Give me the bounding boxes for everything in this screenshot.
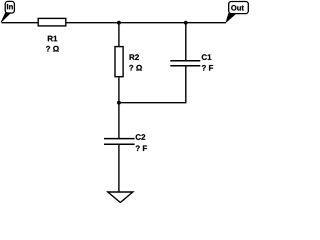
resistor R1	[38, 18, 66, 26]
wire: C1 to bottom rail	[185, 66, 187, 103]
wire: node B down to C1	[185, 23, 187, 61]
capacitor C1 top plate	[170, 60, 200, 62]
resistor R2	[115, 47, 123, 77]
junction node A	[117, 21, 121, 25]
C1 designator label	[202, 54, 212, 60]
wire: C2 to ground	[118, 145, 120, 192]
wire: node A down to R2	[118, 23, 120, 47]
C2 value label ? F	[136, 145, 147, 151]
wire: R1 to node A	[67, 22, 119, 24]
capacitor C2 bottom plate	[104, 143, 135, 145]
capacitor C2 top plate	[104, 138, 135, 140]
wire: In to R1	[2, 22, 39, 24]
R1 value label ? ohm	[46, 46, 59, 52]
wire: node A to node B	[119, 22, 186, 24]
C2 designator label	[136, 134, 146, 140]
wire: R2 to node C	[118, 77, 120, 102]
wire: node B to Out	[186, 22, 226, 24]
capacitor C1 bottom plate	[170, 65, 200, 67]
R2 designator label	[130, 54, 139, 60]
junction node C	[117, 101, 121, 105]
ground	[108, 192, 133, 203]
port Out callout	[226, 2, 248, 23]
wire: node C down to C2	[118, 103, 120, 139]
R2 value label ? ohm	[129, 65, 142, 71]
R1 designator label	[48, 36, 57, 42]
wire: bottom rail node C to C1 branch	[119, 102, 186, 104]
port In callout	[1, 1, 14, 22]
C1 value label ? F	[202, 65, 213, 71]
junction node B	[184, 21, 188, 25]
